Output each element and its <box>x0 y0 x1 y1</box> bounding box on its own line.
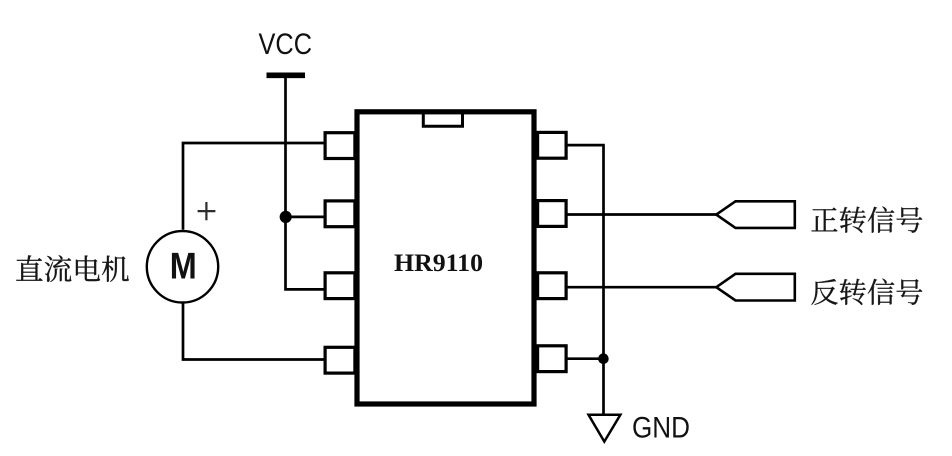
IC pin 4 (left bottom) <box>325 347 355 373</box>
connector J1 (forward signal flag) <box>716 201 795 228</box>
junction node GND rail <box>598 353 609 364</box>
wire motor top to IC pin 1 <box>183 143 325 230</box>
ground symbol <box>589 415 621 442</box>
wire pin 5 to GND rail <box>567 357 604 360</box>
label 正转信号 (forward signal) <box>811 206 922 232</box>
IC orientation notch <box>423 113 462 126</box>
VCC power symbol (bar) <box>267 73 306 79</box>
IC pin 6 (right) <box>538 273 567 299</box>
junction node VCC <box>280 211 292 223</box>
wire VCC node down to pin 3 <box>286 217 325 289</box>
svg-text:GND: GND <box>632 411 690 444</box>
label 直流电机 (DC motor) <box>16 255 129 282</box>
wire pin 7 to forward-signal connector <box>567 213 718 216</box>
svg-text:HR9110: HR9110 <box>394 248 483 277</box>
IC pin 1 (left top) <box>325 133 355 159</box>
IC pin 3 (left) <box>325 273 355 299</box>
label 反转信号 (reverse signal) <box>811 279 922 305</box>
op-amp/driver IC U1 HR9110 body <box>357 112 534 404</box>
connector J2 (reverse signal flag) <box>716 274 795 301</box>
svg-text:M: M <box>170 245 197 287</box>
wire pin 6 to reverse-signal connector <box>567 286 718 289</box>
wire VCC stem <box>284 78 287 217</box>
IC pin 7 (right) <box>538 201 567 227</box>
wire VCC node to pin 2 <box>286 216 325 219</box>
wire motor bottom to IC pin 4 <box>183 304 325 360</box>
IC pin 2 (left) <box>325 201 355 227</box>
svg-text:VCC: VCC <box>259 28 313 61</box>
IC pin 5 (right bottom) <box>538 346 567 372</box>
motor M1 (DC motor) circle <box>147 231 218 302</box>
IC pin 8 (right top) <box>538 132 567 158</box>
polarity + mark <box>198 202 216 220</box>
wire pin 8 to GND rail <box>567 145 604 414</box>
